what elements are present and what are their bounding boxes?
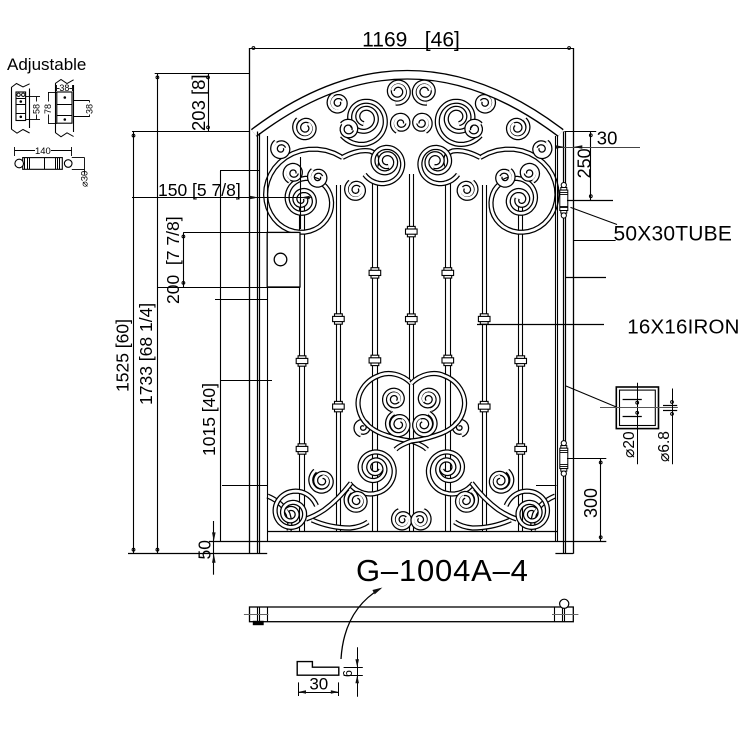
svg-text:250: 250 [575,148,595,178]
svg-text:30: 30 [597,128,618,149]
svg-text:⌀20: ⌀20 [621,431,638,458]
svg-text:203 [8]: 203 [8] [188,74,209,131]
svg-text:58: 58 [32,104,42,114]
svg-text:200 [7 7/8]: 200 [7 7/8] [163,216,183,304]
svg-text:38: 38 [85,104,95,114]
svg-text:50X30TUBE: 50X30TUBE [614,223,733,246]
svg-text:30: 30 [309,675,328,694]
svg-text:⌀30: ⌀30 [80,171,91,187]
svg-text:16X16IRON: 16X16IRON [627,315,739,338]
svg-text:Adjustable: Adjustable [7,55,86,74]
svg-text:38: 38 [59,83,69,93]
svg-text:78: 78 [43,104,53,114]
svg-text:1169 [46]: 1169 [46] [362,29,460,52]
svg-text:⌀6.8: ⌀6.8 [656,431,673,462]
svg-text:50: 50 [195,540,215,560]
svg-text:G–1004A–4: G–1004A–4 [356,553,529,588]
svg-text:1015 [40]: 1015 [40] [199,383,219,456]
svg-text:140: 140 [35,146,51,157]
svg-text:300: 300 [581,488,601,518]
svg-text:6: 6 [341,670,355,677]
svg-text:150 [5 7/8]: 150 [5 7/8] [158,180,241,200]
svg-text:1525 [60]: 1525 [60] [113,319,133,392]
svg-text:1733 [68 1/4]: 1733 [68 1/4] [136,303,156,405]
